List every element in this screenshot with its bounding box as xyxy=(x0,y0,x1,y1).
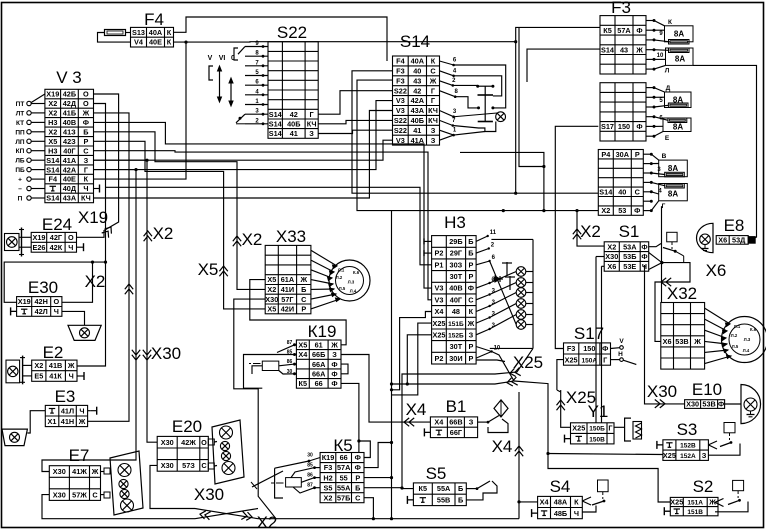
svg-text:Р: Р xyxy=(468,342,473,351)
svg-text:Л: Л xyxy=(665,68,670,75)
svg-text:53В: 53В xyxy=(675,337,688,346)
connector table E20 xyxy=(157,436,208,471)
svg-text:V3: V3 xyxy=(435,284,444,293)
svg-text:F4: F4 xyxy=(144,10,164,29)
junction xyxy=(546,452,549,455)
wire E30 to lamp xyxy=(62,311,85,325)
svg-text:Е3: Е3 xyxy=(55,387,76,406)
junction xyxy=(134,168,137,171)
svg-text:F4: F4 xyxy=(396,57,405,66)
svg-text:Б: Б xyxy=(468,237,473,246)
svg-text:40Г: 40Г xyxy=(450,295,462,304)
svg-text:42: 42 xyxy=(290,110,298,119)
svg-text:40В: 40В xyxy=(449,284,462,293)
ground Y1 xyxy=(564,435,566,443)
svg-text:Ф: Ф xyxy=(468,284,474,293)
svg-text:V3: V3 xyxy=(396,106,405,115)
H3 right pin fan and telltale lamps xyxy=(476,236,488,241)
wire V3 41А to S14 xyxy=(94,140,393,160)
svg-text:S14: S14 xyxy=(46,194,60,203)
svg-text:150А: 150А xyxy=(582,357,598,364)
wire F4 to S14 pin supply xyxy=(174,17,387,61)
svg-text:53Б: 53Б xyxy=(623,252,636,261)
svg-text:53: 53 xyxy=(618,206,626,215)
svg-text:Х4: Х4 xyxy=(492,437,513,456)
wire S1 through X6 to X32 53В xyxy=(655,263,690,342)
headlamp E8 symbol xyxy=(697,223,713,252)
svg-text:Х2: Х2 xyxy=(34,361,43,370)
svg-text:Ф: Ф xyxy=(602,344,608,353)
wire K5 57А xyxy=(364,443,392,468)
svg-text:F3: F3 xyxy=(396,67,405,76)
svg-text:С: С xyxy=(301,295,307,304)
svg-text:+: + xyxy=(18,177,22,184)
svg-text:КТ: КТ xyxy=(16,120,24,127)
svg-text:Ч: Ч xyxy=(574,509,579,518)
wire E7 57Ж bottom bus xyxy=(42,495,195,519)
svg-text:К: К xyxy=(167,28,172,37)
svg-text:66А: 66А xyxy=(312,360,326,369)
svg-text:Л.3: Л.3 xyxy=(348,280,355,285)
svg-text:41Б: 41Б xyxy=(63,109,76,118)
wire X6 to S1 53Е xyxy=(602,265,605,267)
headlamp E10 symbol xyxy=(741,385,761,424)
svg-text:11: 11 xyxy=(490,230,497,236)
junction xyxy=(390,476,393,479)
svg-text:К.6: К.6 xyxy=(353,270,360,275)
connector table E7 xyxy=(49,466,100,501)
connector table F4 xyxy=(131,27,174,47)
svg-text:Б: Б xyxy=(458,496,463,505)
svg-text:40А: 40А xyxy=(149,28,163,37)
svg-text:Ф: Ф xyxy=(355,463,361,472)
svg-text:151В: 151В xyxy=(687,509,703,516)
K19 output bracket xyxy=(341,364,348,374)
svg-text:Г: Г xyxy=(431,86,435,95)
svg-text:Х30: Х30 xyxy=(53,467,66,476)
wire H3 48К nested xyxy=(392,312,432,390)
svg-text:V3: V3 xyxy=(435,295,444,304)
svg-text:Л.2: Л.2 xyxy=(731,333,738,338)
svg-text:Р2: Р2 xyxy=(435,354,444,363)
svg-text:Ф: Ф xyxy=(641,252,647,261)
svg-text:0: 0 xyxy=(231,55,235,62)
svg-text:61: 61 xyxy=(315,341,323,350)
svg-text:Х19: Х19 xyxy=(33,233,46,242)
svg-text:S17: S17 xyxy=(574,324,604,343)
svg-text:Р: Р xyxy=(468,354,473,363)
svg-text:66А: 66А xyxy=(312,369,326,378)
svg-text:29Б: 29Б xyxy=(449,237,462,246)
svg-text:66Г: 66Г xyxy=(450,428,462,437)
junction xyxy=(372,517,375,520)
svg-text:V3: V3 xyxy=(396,96,405,105)
svg-text:41К: 41К xyxy=(49,372,62,381)
svg-text:Г: Г xyxy=(431,96,435,105)
svg-text:ЛТ: ЛТ xyxy=(16,110,25,117)
svg-text:S14: S14 xyxy=(599,187,613,196)
svg-text:Н3: Н3 xyxy=(48,146,57,155)
svg-text:Х4: Х4 xyxy=(298,350,308,359)
connector table E10 xyxy=(685,400,725,409)
svg-text:Ф: Ф xyxy=(331,360,337,369)
svg-text:40: 40 xyxy=(618,187,626,196)
svg-text:42Л: 42Л xyxy=(35,307,48,316)
S2 switch contacts xyxy=(733,480,744,490)
svg-text:Ф: Ф xyxy=(634,206,640,215)
svg-text:F3: F3 xyxy=(324,463,333,472)
svg-text:С: С xyxy=(92,490,98,499)
svg-text:Х30: Х30 xyxy=(161,461,174,470)
svg-text:S22: S22 xyxy=(394,116,407,125)
wire S22 40Б to S14 xyxy=(318,120,392,123)
svg-text:57А: 57А xyxy=(337,463,351,472)
svg-text:43А: 43А xyxy=(63,194,77,203)
connector table F3 upper xyxy=(600,16,646,74)
wire F3 Г down to X32 xyxy=(661,206,663,302)
svg-text:Х32: Х32 xyxy=(667,284,697,303)
connector table S1 xyxy=(604,242,649,271)
svg-text:Х19: Х19 xyxy=(78,208,108,227)
connector table E24 xyxy=(31,232,76,252)
svg-text:О: О xyxy=(83,99,89,108)
S3 switch contacts xyxy=(724,423,735,433)
svg-text:Р: Р xyxy=(635,150,640,159)
svg-text:53Е: 53Е xyxy=(623,262,636,271)
svg-text:Е2: Е2 xyxy=(43,343,64,362)
svg-text:41А: 41А xyxy=(63,156,77,165)
svg-text:8А: 8А xyxy=(674,30,684,39)
connector table K5 xyxy=(320,453,364,503)
svg-text:40В: 40В xyxy=(63,118,76,127)
svg-text:В: В xyxy=(662,153,667,160)
svg-text:Ч: Ч xyxy=(54,307,59,316)
svg-text:К.6: К.6 xyxy=(750,327,757,332)
svg-text:Х2: Х2 xyxy=(257,513,278,530)
svg-text:Ч: Ч xyxy=(83,184,88,193)
svg-text:К: К xyxy=(469,307,474,316)
wire X30-X2 crossing xyxy=(195,509,258,519)
wire E3 to lamp xyxy=(27,411,45,433)
F3 middle fuse group xyxy=(646,87,654,89)
connector table S14 xyxy=(393,56,440,145)
svg-text:41Л: 41Л xyxy=(61,406,74,415)
E24 lamp symbol xyxy=(5,234,20,251)
svg-text:Л.3: Л.3 xyxy=(744,337,751,342)
Y1 solenoid symbol xyxy=(614,426,625,428)
svg-text:К5: К5 xyxy=(419,484,428,493)
svg-text:Н3: Н3 xyxy=(48,118,57,127)
svg-text:V 3: V 3 xyxy=(56,68,82,87)
junction xyxy=(514,192,517,195)
svg-text:10: 10 xyxy=(657,53,664,59)
junction xyxy=(542,165,545,168)
svg-text:55А: 55А xyxy=(437,484,451,493)
svg-text:152В: 152В xyxy=(680,443,696,450)
wire F3 150 to S17 xyxy=(555,126,598,348)
S22 pin stubs xyxy=(245,46,268,48)
junction xyxy=(514,40,517,43)
svg-text:V4: V4 xyxy=(134,38,144,47)
round connector plug at X33 xyxy=(329,260,370,301)
svg-text:Х2: Х2 xyxy=(267,285,276,294)
wire K5 55 Р xyxy=(364,477,392,479)
junction xyxy=(91,261,94,264)
svg-text:Р: Р xyxy=(355,473,360,482)
wire X19 42Н to E30 xyxy=(4,262,105,302)
wire from S14 area down xyxy=(460,152,544,210)
svg-text:З: З xyxy=(332,350,337,359)
wire F4 fuse leads xyxy=(98,33,131,43)
junction xyxy=(390,388,393,391)
svg-text:ЛБ: ЛБ xyxy=(15,158,25,165)
junction xyxy=(406,382,409,385)
svg-text:S5: S5 xyxy=(426,464,447,483)
connector table X32 xyxy=(661,303,705,370)
svg-text:150: 150 xyxy=(583,344,595,353)
wire X30 to S1 53Б xyxy=(596,256,604,258)
connector table E2 xyxy=(32,360,77,381)
wire to S4 48А xyxy=(519,501,538,503)
wire X25 to S3 152А xyxy=(548,454,663,455)
svg-text:150: 150 xyxy=(618,122,630,131)
wire V3 40В to H3 xyxy=(94,122,432,288)
svg-text:Х5: Х5 xyxy=(298,341,307,350)
svg-text:S22: S22 xyxy=(394,126,407,135)
svg-text:Х2: Х2 xyxy=(48,99,57,108)
svg-text:42К: 42К xyxy=(50,243,63,252)
svg-text:151А: 151А xyxy=(687,500,703,507)
svg-text:Г: Г xyxy=(310,110,314,119)
E2 lamp symbol xyxy=(6,360,20,383)
ground S3 xyxy=(656,441,658,449)
svg-text:Ф: Ф xyxy=(331,369,337,378)
svg-text:S14: S14 xyxy=(269,119,283,128)
svg-text:Л.2: Л.2 xyxy=(336,275,343,280)
svg-text:53В: 53В xyxy=(702,400,715,409)
svg-text:З: З xyxy=(469,330,474,339)
wire K19 66 to K5 xyxy=(341,383,359,452)
svg-text:Р: Р xyxy=(468,260,473,269)
svg-text:S1: S1 xyxy=(619,222,640,241)
connector table E8 xyxy=(716,236,748,245)
ground S4 xyxy=(531,509,533,517)
svg-text:З: З xyxy=(84,156,89,165)
svg-text:Г: Г xyxy=(84,165,88,174)
svg-text:Е5: Е5 xyxy=(34,372,43,381)
wire trunk 30 vertical xyxy=(391,211,393,519)
svg-text:Р: Р xyxy=(83,137,88,146)
wire to E20 42Ж xyxy=(94,160,158,442)
svg-text:40Б: 40Б xyxy=(287,119,300,128)
junction xyxy=(575,209,578,212)
svg-text:152А: 152А xyxy=(680,453,696,460)
svg-text:42Н: 42Н xyxy=(35,297,48,306)
wire Х2 53 to S14 F3 43 xyxy=(357,80,598,211)
svg-text:42А: 42А xyxy=(411,96,425,105)
svg-text:Е30: Е30 xyxy=(28,278,58,297)
svg-text:30Т: 30Т xyxy=(450,342,463,351)
connector table H3 xyxy=(432,236,477,364)
svg-text:Ф: Ф xyxy=(636,122,642,131)
svg-text:Г: Г xyxy=(662,203,666,210)
svg-text:Ф: Ф xyxy=(636,26,642,35)
ground E3 xyxy=(91,410,97,412)
svg-text:КЧ: КЧ xyxy=(428,116,438,125)
svg-text:Х2: Х2 xyxy=(85,272,106,291)
svg-text:С: С xyxy=(83,146,89,155)
svg-text:Н2: Н2 xyxy=(323,473,332,482)
junction xyxy=(390,441,393,444)
wire S14 to F3 43 Ж xyxy=(527,49,600,82)
svg-text:Х4: Х4 xyxy=(434,418,444,427)
svg-text:ПП: ПП xyxy=(15,129,25,136)
svg-text:150Б: 150Б xyxy=(589,426,605,433)
ground H3 29Б xyxy=(423,238,425,244)
svg-text:41И: 41И xyxy=(281,285,294,294)
svg-text:Х5: Х5 xyxy=(48,137,57,146)
connector table X33 xyxy=(265,245,311,313)
svg-text:К: К xyxy=(84,175,89,184)
svg-text:Ч: Ч xyxy=(68,243,73,252)
wire fuse group1 to E8 xyxy=(693,65,757,240)
junction xyxy=(400,486,403,489)
F3 lower fuse group xyxy=(643,153,651,155)
wire S22 41 to S14 xyxy=(318,130,392,133)
svg-text:Л.5: Л.5 xyxy=(732,344,739,349)
svg-text:КЧ: КЧ xyxy=(81,194,91,203)
svg-text:Ж: Ж xyxy=(429,76,437,85)
junction xyxy=(104,261,107,264)
svg-text:Р1: Р1 xyxy=(435,260,444,269)
svg-text:З: З xyxy=(309,129,314,138)
wire H3 30И to X25 trunk xyxy=(392,352,515,385)
svg-text:66В: 66В xyxy=(449,418,462,427)
svg-text:42З: 42З xyxy=(63,137,76,146)
svg-text:F3: F3 xyxy=(611,0,631,17)
svg-text:Х30: Х30 xyxy=(265,295,278,304)
wire S14 area vertical xyxy=(515,42,517,194)
connector table S22 xyxy=(268,42,318,139)
svg-text:Х30: Х30 xyxy=(53,490,66,499)
svg-text:43: 43 xyxy=(413,76,421,85)
svg-text:Г: Г xyxy=(603,355,607,364)
svg-text:Е26: Е26 xyxy=(33,243,46,252)
svg-text:−: − xyxy=(18,186,22,193)
S14 switch mechanism xyxy=(454,65,506,108)
svg-text:Р: Р xyxy=(468,272,473,281)
svg-text:29Г: 29Г xyxy=(450,249,462,258)
svg-text:О: О xyxy=(68,233,74,242)
svg-text:42Г: 42Г xyxy=(50,233,62,242)
svg-text:Х25: Х25 xyxy=(565,355,578,364)
lamp in S14 xyxy=(496,112,506,122)
svg-text:30А: 30А xyxy=(616,150,630,159)
svg-text:Х6: Х6 xyxy=(607,262,616,271)
svg-text:8А: 8А xyxy=(675,55,685,64)
svg-text:42А: 42А xyxy=(63,165,77,174)
svg-text:Х25: Х25 xyxy=(663,451,676,460)
junction xyxy=(517,500,520,503)
svg-text:Ж: Ж xyxy=(82,109,90,118)
wire H3 151Б nested xyxy=(392,323,432,395)
svg-text:87: 87 xyxy=(287,340,293,346)
svg-text:Х30: Х30 xyxy=(151,344,181,363)
svg-text:Х2: Х2 xyxy=(153,224,174,243)
svg-text:S3: S3 xyxy=(677,420,698,439)
svg-text:Н3: Н3 xyxy=(444,213,466,232)
ground S2 xyxy=(663,507,665,515)
svg-text:42Б: 42Б xyxy=(63,90,76,99)
connector table Y1 xyxy=(571,423,615,444)
svg-text:Х25: Х25 xyxy=(566,388,596,407)
svg-text:Ф: Ф xyxy=(355,453,361,462)
svg-text:Г: Г xyxy=(608,424,612,433)
E8 terminator xyxy=(748,237,755,244)
svg-text:S17: S17 xyxy=(601,122,614,131)
svg-text:О: О xyxy=(83,90,89,99)
S5 switch contacts xyxy=(466,488,477,490)
svg-text:Х25: Х25 xyxy=(433,330,446,339)
svg-text:Б: Б xyxy=(301,285,306,294)
svg-text:40Г: 40Г xyxy=(63,146,75,155)
wire V3 42Б via X19 to E24 xyxy=(77,94,119,237)
wire V3 41Б via X2 to E3 41Н xyxy=(88,113,129,421)
svg-text:Х25: Х25 xyxy=(572,424,585,433)
svg-text:53Д: 53Д xyxy=(732,236,746,245)
svg-text:61А: 61А xyxy=(281,275,295,284)
svg-text:КЧ: КЧ xyxy=(428,106,438,115)
svg-text:Б: Б xyxy=(355,483,360,492)
svg-text:С: С xyxy=(468,295,474,304)
svg-text:Х30: Х30 xyxy=(605,252,618,261)
wire S1 53Б down X30 trunk xyxy=(595,257,597,423)
svg-text:41: 41 xyxy=(290,129,298,138)
svg-text:Х2: Х2 xyxy=(324,493,333,502)
wire vertical v519 xyxy=(519,27,544,166)
connector table S17 xyxy=(564,343,611,365)
svg-text:Х25: Х25 xyxy=(433,319,446,328)
svg-text:К5: К5 xyxy=(299,379,308,388)
svg-text:Х2: Х2 xyxy=(580,222,601,241)
wire bus 187 xyxy=(106,187,432,264)
connector table S2 xyxy=(670,497,718,515)
svg-text:Ч: Ч xyxy=(79,406,84,415)
svg-text:S5: S5 xyxy=(324,483,333,492)
svg-text:Х19: Х19 xyxy=(18,297,31,306)
svg-text:Б: Б xyxy=(83,128,88,137)
svg-text:53А: 53А xyxy=(623,242,637,251)
wire X25 to Y1 150Б xyxy=(561,390,571,427)
svg-text:F3: F3 xyxy=(567,344,576,353)
wire X33 57Г to X30 trunk xyxy=(234,299,276,519)
svg-text:Х2: Х2 xyxy=(601,206,610,215)
svg-text:КП: КП xyxy=(16,148,25,155)
svg-text:42: 42 xyxy=(413,86,421,95)
wire H3 30Т right xyxy=(476,360,505,362)
svg-text:О: О xyxy=(201,438,207,447)
svg-text:К19: К19 xyxy=(308,322,337,341)
connector table S3 xyxy=(663,440,709,461)
svg-text:42Ж: 42Ж xyxy=(181,438,196,447)
svg-text:Х5: Х5 xyxy=(267,275,276,284)
wire E30 42Н up xyxy=(62,262,93,302)
svg-text:Е24: Е24 xyxy=(42,215,72,234)
svg-text:55А: 55А xyxy=(337,483,351,492)
wire V3 42А to S14 xyxy=(94,101,393,170)
svg-text:Ж: Ж xyxy=(299,275,307,284)
svg-text:30: 30 xyxy=(307,453,313,459)
